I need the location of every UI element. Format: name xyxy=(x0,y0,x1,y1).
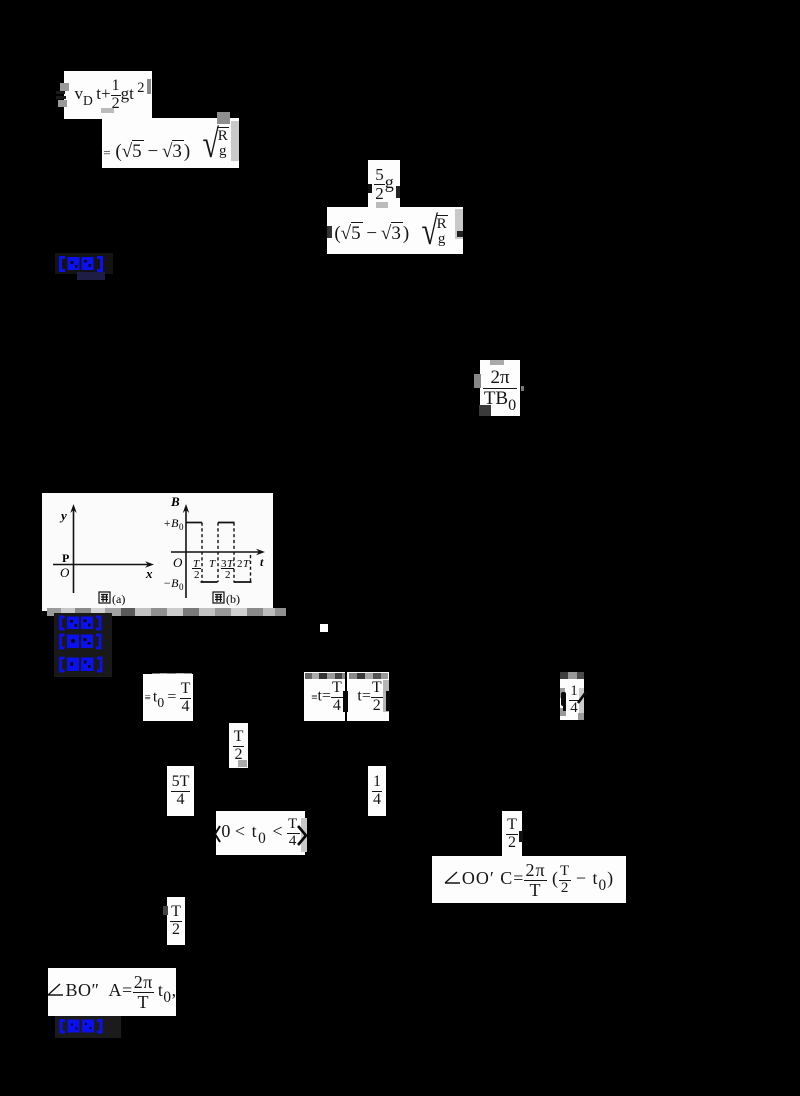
svg-text:O: O xyxy=(173,555,183,570)
figure with graphs (a) and (b) xyxy=(42,493,273,611)
svg-text:x: x xyxy=(145,566,153,581)
grey artifact strip under figure xyxy=(47,608,286,616)
svg-text:T: T xyxy=(243,558,250,570)
formula box: T/2 xyxy=(167,897,185,945)
svg-text:0: 0 xyxy=(179,582,184,592)
formula box F4: (√5 - √3) sqrt(R/g) xyxy=(327,207,463,254)
grey text fragments right of blue row3 xyxy=(152,673,192,679)
formula box: 5T/4 xyxy=(167,766,194,816)
svg-text:P: P xyxy=(62,551,69,565)
formula box: t = T/4 xyxy=(304,672,345,721)
caption 图 (b) xyxy=(213,592,224,603)
svg-text:0: 0 xyxy=(179,522,184,532)
formula box F5: 2π/TB0 xyxy=(480,360,520,416)
square wave solid segments xyxy=(186,523,252,583)
svg-text:B: B xyxy=(170,494,180,509)
blue label rows 【考点】【专题】【分析】 xyxy=(54,613,112,677)
svg-text:2: 2 xyxy=(225,569,231,581)
misc grey artifacts xyxy=(217,112,230,124)
formula box: angle OO′C = 2pi/T (T/2 - t0) xyxy=(432,856,626,903)
svg-text:+B: +B xyxy=(163,516,179,530)
fig a: x-axis xyxy=(53,564,149,566)
svg-text:T: T xyxy=(209,558,216,570)
formula box: 1/4 xyxy=(560,679,584,720)
formula box F3: 5/2 g xyxy=(368,160,400,207)
fig b: B-axis xyxy=(185,509,187,598)
svg-text:−B: −B xyxy=(163,576,179,590)
svg-text:t: t xyxy=(260,555,264,569)
formula box: t0 = T/4 xyxy=(143,674,193,721)
svg-text:2: 2 xyxy=(237,558,243,570)
fig a: y-axis xyxy=(73,509,75,593)
formula box F2: = (√5 - √3) sqrt(R/g) xyxy=(102,118,239,168)
fig b: t-axis xyxy=(171,551,260,553)
formula box F1: = vD t + 1/2 g t^2 xyxy=(64,71,152,119)
formula box: T/2 xyxy=(229,723,248,768)
blue label L1 (【点评】-style) xyxy=(55,253,113,274)
formula box: t = T/2 xyxy=(347,672,389,721)
navy shadow under L1 xyxy=(77,272,105,280)
formula box: T/2 xyxy=(502,811,522,857)
blue label L2 (【点评】-style) xyxy=(55,1016,121,1038)
formula box: 0 < t0 < T/4 xyxy=(216,811,305,855)
formula box: angle BO″A = 2pi/T t0 xyxy=(48,968,176,1016)
svg-text:(a): (a) xyxy=(112,592,125,606)
left = fragment of box F1 xyxy=(60,83,69,91)
svg-text:(b): (b) xyxy=(226,592,240,606)
svg-text:2: 2 xyxy=(194,569,200,581)
formula box: 1/4 xyxy=(368,766,386,816)
white dot xyxy=(320,624,328,632)
svg-text:y: y xyxy=(59,508,67,523)
caption 图 (a) xyxy=(99,592,110,603)
dashed verticals xyxy=(202,523,251,583)
svg-text:O: O xyxy=(60,565,70,580)
